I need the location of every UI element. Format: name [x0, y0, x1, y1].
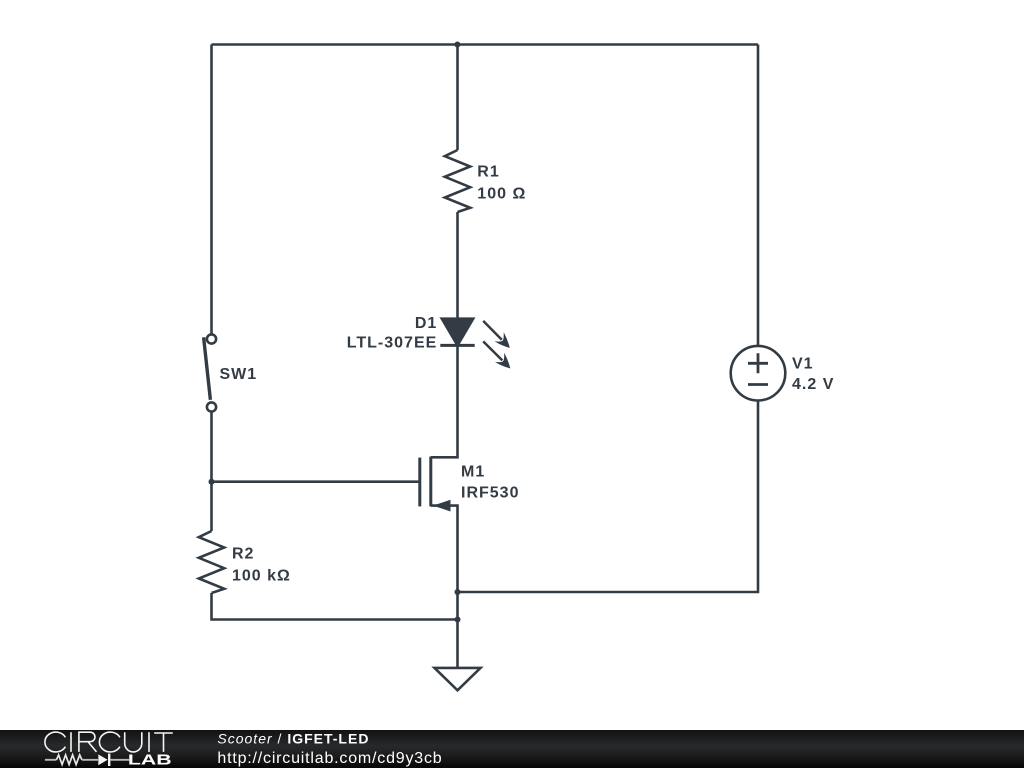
- node top junction: [454, 42, 460, 48]
- logo CIRCUIT: [45, 732, 173, 752]
- svg-text:LAB: LAB: [128, 751, 172, 768]
- resistor R1: [445, 150, 470, 212]
- node R2/ground junction: [455, 617, 461, 623]
- footer bar: [0, 730, 1024, 768]
- wire top horizontal: [212, 43, 759, 46]
- wire right vertical upper: [757, 45, 760, 346]
- wire R2 bottom to ground node: [212, 593, 458, 620]
- switch SW1: [204, 334, 216, 411]
- mosfet M1: [420, 457, 451, 512]
- voltage source V1: [731, 346, 786, 401]
- resistor R2: [199, 531, 224, 593]
- logo schematic: wire + resistor + diode: [45, 754, 129, 766]
- wire gate horizontal: [212, 480, 420, 483]
- wire mosfet source down to ground: [431, 506, 458, 668]
- LED D1: [440, 319, 515, 373]
- svg-text:http://circuitlab.com/cd9y3cb: http://circuitlab.com/cd9y3cb: [217, 750, 442, 767]
- ground: [435, 668, 481, 690]
- svg-text:Scooter / IGFET-LED: Scooter / IGFET-LED: [217, 730, 369, 746]
- wire right vertical lower + bottom horizontal: [458, 401, 759, 592]
- wire left vertical below switch: [210, 413, 213, 532]
- node gate junction: [209, 479, 215, 485]
- node source/V1 junction: [455, 589, 461, 595]
- wire left vertical upper: [210, 45, 213, 335]
- wire R1 top: [456, 45, 459, 151]
- wire LED cathode to mosfet drain: [431, 346, 458, 458]
- wire R1 bottom to LED: [456, 212, 459, 319]
